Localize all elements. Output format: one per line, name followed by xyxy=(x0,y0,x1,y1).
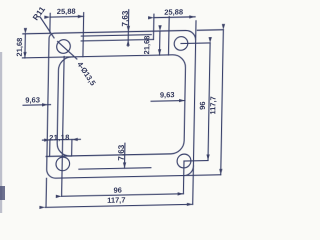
radius callout R11 leader xyxy=(40,17,55,38)
hole extension top-right xyxy=(181,42,210,45)
hidden line top xyxy=(81,39,153,40)
dim 21,68 top-middle xyxy=(159,31,161,55)
svg-text:96: 96 xyxy=(198,101,207,110)
svg-text:25,88: 25,88 xyxy=(57,7,76,16)
hole bottom-right xyxy=(177,154,191,168)
hole extension vertical bottom-right xyxy=(182,161,185,194)
svg-text:4-Ø13,5: 4-Ø13,5 xyxy=(75,60,97,87)
dim 25,88 top-left xyxy=(50,15,84,18)
svg-text:96: 96 xyxy=(113,186,122,195)
dim 96 right xyxy=(208,43,210,160)
svg-text:7,63: 7,63 xyxy=(117,144,126,161)
hole top-left xyxy=(57,40,71,54)
inner-bottom extension left xyxy=(46,155,71,158)
inner-top extension left xyxy=(22,57,73,58)
hidden line bottom xyxy=(79,168,151,169)
dim 9,63 left xyxy=(23,104,48,107)
svg-text:117,7: 117,7 xyxy=(107,195,126,204)
svg-text:21,68: 21,68 xyxy=(142,36,151,55)
dim 117,7 bottom xyxy=(45,204,193,207)
dim 21,68 left xyxy=(24,34,26,58)
inner rounded square xyxy=(57,55,186,157)
dim 25,88 top-right xyxy=(154,16,195,19)
svg-text:9,63: 9,63 xyxy=(160,90,175,99)
dim 9,63 right xyxy=(151,99,185,102)
dim 7,63 bottom xyxy=(123,143,125,168)
top edge extension right xyxy=(197,29,223,32)
svg-text:25,88: 25,88 xyxy=(164,7,183,16)
dim 96 bottom xyxy=(62,194,184,196)
svg-text:9,63: 9,63 xyxy=(25,95,40,104)
hole extension bottom-right xyxy=(184,160,208,162)
hole top-right xyxy=(174,37,188,51)
hole bottom-left xyxy=(56,157,70,171)
dim 7,63 top xyxy=(127,10,129,32)
dim 117,7 right xyxy=(221,30,224,175)
scan blob bottom-left xyxy=(0,186,5,200)
svg-text:21,18: 21,18 xyxy=(49,133,70,142)
scan left-edge shadow xyxy=(0,52,2,213)
hole centre extension vertical left xyxy=(62,56,65,196)
svg-text:21,68: 21,68 xyxy=(15,38,24,57)
hidden line top 2 xyxy=(81,35,151,36)
bottom edge extension right xyxy=(185,174,221,177)
leader 4-dia-13,5 xyxy=(57,41,77,59)
plate outline xyxy=(47,30,196,178)
labels (drawn unrotated group with same transform) xyxy=(12,1,219,207)
svg-text:117,7: 117,7 xyxy=(208,96,217,115)
svg-text:7,63: 7,63 xyxy=(121,10,130,27)
top edge extension left xyxy=(23,32,49,35)
dim 21,18 bottom-left xyxy=(42,139,50,141)
svg-text:R11: R11 xyxy=(31,5,47,22)
